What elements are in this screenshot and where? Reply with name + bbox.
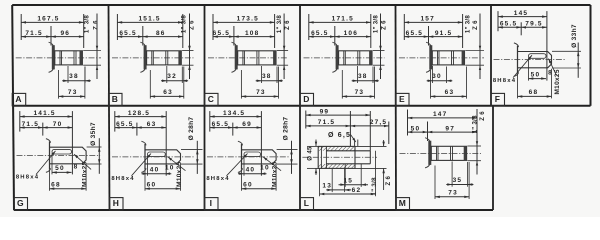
svg-text:M10x25: M10x25 bbox=[176, 161, 183, 186]
panel C shaft flange bbox=[235, 45, 238, 69]
svg-text:145: 145 bbox=[514, 10, 528, 17]
svg-text:63: 63 bbox=[445, 89, 455, 96]
label box C bbox=[205, 93, 219, 105]
panel L hub outer section bbox=[318, 146, 355, 168]
panel B shaft groove lines bbox=[151, 51, 153, 65]
panel L dim extension line left bbox=[305, 111, 307, 129]
panel B shaft body bbox=[147, 51, 182, 65]
svg-text:F: F bbox=[495, 94, 501, 104]
svg-text:35: 35 bbox=[453, 177, 463, 184]
svg-text:8H8x4: 8H8x4 bbox=[111, 176, 134, 182]
svg-text:65.5: 65.5 bbox=[119, 30, 136, 37]
svg-text:63: 63 bbox=[147, 121, 157, 128]
svg-text:91.5: 91.5 bbox=[435, 30, 452, 37]
panel L lube hole bbox=[354, 140, 356, 147]
panel L bore walls bbox=[326, 150, 370, 152]
svg-text:96: 96 bbox=[60, 30, 70, 37]
panel A dim extension line middle bbox=[50, 26, 52, 46]
panel A dimension 96 bbox=[51, 36, 84, 38]
label box B bbox=[109, 93, 123, 105]
svg-text:68: 68 bbox=[529, 89, 539, 96]
svg-text:63: 63 bbox=[163, 89, 173, 96]
panel G tapped hole leader bbox=[74, 154, 91, 169]
panel C shaft diameter dimension bbox=[277, 50, 288, 52]
panel H dimension 63 bbox=[137, 127, 166, 129]
panel L dimension 62 bbox=[319, 168, 321, 196]
svg-text:8H8x4: 8H8x4 bbox=[206, 176, 229, 182]
panel F dimension 68 bbox=[517, 74, 519, 99]
panel M dimension 50 bbox=[408, 131, 428, 133]
panel L dimension 15 bbox=[344, 164, 346, 187]
svg-text:128.5: 128.5 bbox=[128, 110, 150, 117]
svg-text:8H8x4: 8H8x4 bbox=[16, 175, 39, 181]
svg-text:I: I bbox=[210, 198, 214, 208]
svg-text:157: 157 bbox=[420, 16, 434, 23]
svg-text:40: 40 bbox=[150, 167, 160, 174]
label box A bbox=[12, 93, 26, 105]
panel M dim extension line left bbox=[407, 110, 409, 136]
svg-text:108: 108 bbox=[245, 30, 259, 37]
svg-text:1" 3/8: 1" 3/8 bbox=[181, 15, 188, 34]
svg-text:99: 99 bbox=[320, 108, 330, 115]
panel L dim extension line 99 end bbox=[369, 111, 371, 151]
panel F gearbox face bbox=[517, 46, 519, 74]
panel G dim extension line left bbox=[19, 111, 21, 132]
panel L hub diameter dimension 45 bbox=[307, 145, 318, 147]
panel D shaft end cap bbox=[369, 51, 372, 65]
border vertical C-D bbox=[299, 5, 301, 210]
svg-text:50: 50 bbox=[411, 125, 421, 132]
panel B dimension 86 bbox=[143, 36, 183, 38]
panel A dimension 38 bbox=[67, 66, 69, 83]
panel I dimension 134.5 bbox=[210, 116, 262, 118]
panel A shaft diameter dimension bbox=[83, 50, 101, 52]
svg-text:38: 38 bbox=[358, 73, 368, 80]
panel L sleeve end bbox=[369, 151, 371, 164]
panel F dim extension line middle bbox=[520, 22, 522, 35]
svg-text:1" 3/8: 1" 3/8 bbox=[371, 177, 378, 196]
border vertical left bbox=[12, 5, 14, 210]
svg-text:Ø 6,5: Ø 6,5 bbox=[328, 132, 351, 139]
label box M bbox=[396, 198, 410, 210]
panel I dimension 60 bbox=[241, 170, 243, 191]
panel L dimension 13 bbox=[331, 168, 333, 192]
panel A dim extension line left bbox=[20, 14, 22, 40]
svg-text:65.5: 65.5 bbox=[116, 121, 133, 128]
panel I gearbox face bbox=[241, 144, 243, 170]
svg-text:50: 50 bbox=[531, 71, 541, 78]
panel I dimension 69 bbox=[233, 127, 262, 129]
svg-text:60: 60 bbox=[243, 181, 253, 188]
panel F dim extension line right keyway end bbox=[546, 11, 548, 81]
panel D dim extension line middle bbox=[334, 26, 336, 46]
svg-text:171.5: 171.5 bbox=[332, 16, 354, 23]
svg-text:8: 8 bbox=[74, 163, 79, 170]
svg-text:71.5: 71.5 bbox=[25, 30, 42, 37]
panel L hub hatching bottom bbox=[318, 164, 355, 168]
panel G shaft body bbox=[50, 147, 87, 164]
panel B dimension 32 bbox=[166, 66, 168, 83]
panel D shaft diameter dimension bbox=[373, 50, 385, 52]
svg-text:Z 6: Z 6 bbox=[381, 20, 388, 30]
panel E shaft diameter dimension bbox=[465, 50, 484, 52]
svg-text:65.5: 65.5 bbox=[212, 121, 229, 128]
panel A shaft centerline bbox=[16, 57, 101, 59]
panel I dim extension line right keyway end bbox=[260, 111, 262, 176]
border vertical A-B bbox=[109, 5, 110, 210]
panel G keyway bbox=[52, 149, 72, 154]
panel C shaft centerline bbox=[208, 57, 288, 59]
svg-text:73: 73 bbox=[256, 89, 266, 96]
panel E dim extension line left bbox=[403, 14, 405, 40]
panel H shaft diameter dimension bbox=[181, 149, 203, 151]
panel D shaft groove lines bbox=[343, 51, 345, 65]
panel H gearbox face bbox=[144, 144, 146, 170]
panel F shaft centerline bbox=[494, 59, 566, 61]
panel D dim extension line right bbox=[370, 14, 372, 48]
panel D dimension 171.5 bbox=[309, 21, 371, 23]
panel H dim extension line left bbox=[114, 111, 116, 132]
svg-text:1" 3/8: 1" 3/8 bbox=[373, 15, 380, 34]
panel I dim extension line left bbox=[209, 111, 211, 132]
panel B shaft end cap bbox=[178, 51, 181, 65]
panel G shaft centerline bbox=[17, 155, 101, 157]
panel A shaft flange bbox=[52, 45, 55, 69]
panel M dim extension line middle bbox=[427, 122, 429, 142]
panel I tapped hole leader bbox=[263, 157, 281, 171]
panel E dim extension line middle bbox=[428, 26, 430, 46]
panel D dimension 38 bbox=[357, 66, 359, 83]
svg-text:C: C bbox=[208, 94, 215, 104]
panel A dimension 73 bbox=[58, 70, 60, 99]
svg-text:M: M bbox=[399, 198, 407, 208]
svg-text:Ø 35h7: Ø 35h7 bbox=[90, 122, 97, 146]
panel I shaft body bbox=[242, 150, 277, 164]
svg-text:147: 147 bbox=[433, 111, 447, 118]
panel H dim extension line right keyway end bbox=[165, 111, 167, 176]
svg-text:B: B bbox=[112, 94, 119, 104]
panel F key label leader bbox=[513, 55, 532, 77]
panel A shaft end cap bbox=[80, 51, 83, 65]
panel M dimension 73 bbox=[434, 166, 436, 200]
panel M shaft diameter dimension bbox=[467, 145, 481, 147]
svg-text:73: 73 bbox=[355, 89, 365, 96]
panel B dimension 65.5 bbox=[117, 36, 142, 38]
panel G dimension 50 bbox=[51, 153, 53, 174]
border vertical E-F bbox=[490, 5, 492, 106]
panel H shaft centerline bbox=[112, 156, 195, 158]
svg-text:62: 62 bbox=[352, 187, 362, 194]
svg-text:Z 6: Z 6 bbox=[479, 111, 486, 121]
svg-text:50: 50 bbox=[55, 165, 65, 172]
panel M shaft flange bbox=[428, 141, 431, 165]
svg-text:M10x25: M10x25 bbox=[271, 161, 278, 186]
panel D dimension 65.5 bbox=[309, 36, 335, 38]
panel E shaft flange bbox=[429, 45, 432, 69]
panel C dim extension line middle bbox=[233, 26, 235, 46]
svg-text:Ø 45: Ø 45 bbox=[307, 146, 314, 161]
panel H dimension 60 bbox=[144, 170, 146, 191]
panel C dim extension line right bbox=[274, 14, 276, 48]
panel G gearbox face bbox=[49, 141, 51, 169]
panel F dim extension line left bbox=[497, 11, 499, 31]
panel D dim extension line left bbox=[308, 14, 310, 40]
panel B shaft centerline bbox=[112, 57, 194, 59]
panel F dimension 65.5 bbox=[498, 26, 521, 28]
svg-text:E: E bbox=[399, 94, 406, 104]
svg-text:27,5: 27,5 bbox=[370, 119, 387, 126]
panel C dimension 108 bbox=[234, 36, 275, 38]
panel M dim extension line right bbox=[476, 110, 478, 144]
sheet outer border top bbox=[12, 4, 590, 6]
svg-text:106: 106 bbox=[344, 30, 358, 37]
panel D dimension 106 bbox=[335, 36, 371, 38]
panel A shaft body bbox=[55, 51, 83, 65]
svg-text:Z 6: Z 6 bbox=[93, 20, 100, 30]
row divider line bbox=[13, 105, 591, 107]
panel C shaft end cap bbox=[273, 51, 276, 65]
panel G dim extension line right keyway end bbox=[71, 111, 73, 174]
panel E dimension 65.5 bbox=[404, 36, 428, 38]
svg-text:30: 30 bbox=[432, 73, 442, 80]
panel F tapped hole leader bbox=[549, 59, 557, 76]
panel F shaft diameter dimension bbox=[552, 50, 581, 52]
svg-text:65.5: 65.5 bbox=[311, 30, 328, 37]
svg-text:G: G bbox=[17, 198, 25, 208]
panel C shaft body bbox=[238, 51, 276, 65]
panel B dimension 151.5 bbox=[117, 21, 182, 23]
panel D shaft body bbox=[339, 51, 372, 65]
panel F keyway bbox=[529, 54, 547, 59]
svg-text:Ø 28h7: Ø 28h7 bbox=[282, 117, 289, 141]
panel G dim extension line middle bbox=[42, 123, 44, 136]
panel F shaft body bbox=[518, 52, 552, 68]
svg-text:69: 69 bbox=[242, 121, 252, 128]
svg-text:167.5: 167.5 bbox=[37, 16, 59, 23]
panel E dimension 91.5 bbox=[429, 36, 463, 38]
svg-text:D: D bbox=[303, 94, 310, 104]
panel B dim extension line left bbox=[116, 14, 118, 40]
panel L dimension 27.5 bbox=[350, 125, 388, 127]
panel E shaft groove lines bbox=[437, 51, 439, 65]
panel L dim extension line 27.5 end bbox=[388, 122, 390, 145]
panel F dimension 50 bbox=[528, 58, 530, 81]
panel H dimension 128.5 bbox=[115, 116, 166, 118]
border vertical D-E bbox=[395, 5, 398, 210]
border vertical M right bbox=[492, 106, 494, 210]
svg-text:8H8x4: 8H8x4 bbox=[493, 78, 516, 84]
svg-text:65.5: 65.5 bbox=[406, 30, 423, 37]
panel M dimension 97 bbox=[428, 131, 478, 133]
panel M shaft centerline bbox=[400, 152, 482, 154]
panel I dimension 40 bbox=[243, 156, 245, 176]
panel D shaft centerline bbox=[304, 57, 385, 59]
panel C dimension 173.5 bbox=[213, 21, 275, 23]
panel B dim extension line middle bbox=[142, 26, 144, 46]
label box H bbox=[110, 198, 124, 210]
panel A dim extension line right bbox=[83, 14, 85, 48]
panel H key label leader bbox=[132, 154, 152, 176]
svg-text:1" 3/8: 1" 3/8 bbox=[83, 15, 90, 34]
svg-text:Ø 33h7: Ø 33h7 bbox=[571, 24, 578, 48]
svg-text:A: A bbox=[15, 94, 22, 104]
svg-text:79.5: 79.5 bbox=[525, 21, 542, 28]
panel F dimension 79.5 bbox=[521, 26, 547, 28]
panel G dimension 141.5 bbox=[20, 116, 73, 118]
border vertical F right bbox=[590, 5, 592, 106]
label box F bbox=[491, 93, 505, 105]
panel B shaft diameter dimension bbox=[182, 50, 193, 52]
svg-text:97: 97 bbox=[445, 125, 455, 132]
svg-text:L: L bbox=[304, 198, 310, 208]
panel B dimension 63 bbox=[149, 70, 151, 99]
panel G dimension 68 bbox=[49, 170, 51, 191]
panel G dimension 71.5 bbox=[20, 127, 43, 129]
svg-text:65.5: 65.5 bbox=[500, 21, 517, 28]
svg-text:40: 40 bbox=[246, 167, 256, 174]
panel L centerline bbox=[302, 156, 377, 158]
panel M dimension 147 bbox=[408, 117, 478, 119]
panel G key label leader bbox=[36, 151, 56, 175]
panel L hub hatching top bbox=[318, 146, 355, 150]
svg-text:M10x25: M10x25 bbox=[81, 161, 88, 186]
panel L seal recess bbox=[320, 146, 322, 168]
label box L bbox=[300, 198, 314, 210]
panel G dimension 70 bbox=[43, 127, 73, 129]
panel E shaft centerline bbox=[399, 57, 484, 59]
border vertical B-C bbox=[204, 5, 206, 210]
panel I shaft diameter dimension bbox=[277, 149, 298, 151]
svg-text:141.5: 141.5 bbox=[33, 110, 55, 117]
panel H shaft body bbox=[145, 150, 181, 164]
panel C dimension 65.5 bbox=[213, 36, 234, 38]
panel M shaft groove lines bbox=[436, 146, 438, 160]
panel M shaft end cap bbox=[464, 146, 467, 160]
panel C dim extension line left bbox=[212, 14, 214, 40]
sheet bottom border bbox=[14, 209, 493, 211]
panel I keyway bbox=[244, 152, 261, 157]
svg-text:Z 6: Z 6 bbox=[472, 20, 479, 30]
svg-text:13: 13 bbox=[322, 183, 332, 190]
panel C dimension 38 bbox=[261, 66, 263, 83]
svg-text:38: 38 bbox=[69, 73, 79, 80]
panel L hole leader bbox=[351, 135, 356, 143]
panel L dim extension line 71.5 end bbox=[349, 111, 351, 146]
panel E dim extension line right bbox=[462, 14, 464, 48]
panel M shaft body bbox=[431, 146, 466, 160]
label box G bbox=[14, 198, 28, 210]
panel E dimension 157 bbox=[404, 21, 462, 23]
panel A dimension 71.5 bbox=[21, 36, 51, 38]
label box D bbox=[300, 93, 314, 105]
svg-text:38: 38 bbox=[262, 73, 272, 80]
panel A shaft groove lines bbox=[59, 51, 61, 65]
panel E dimension 63 bbox=[430, 70, 432, 99]
svg-text:60: 60 bbox=[147, 181, 157, 188]
panel M dimension 35 bbox=[451, 162, 453, 187]
svg-text:1" 3/8: 1" 3/8 bbox=[276, 15, 283, 34]
svg-text:1" 3/8: 1" 3/8 bbox=[465, 15, 472, 34]
panel D shaft flange bbox=[336, 45, 339, 69]
svg-text:8: 8 bbox=[548, 70, 553, 77]
panel F dimension 145 bbox=[498, 16, 547, 18]
panel H dimension 40 bbox=[147, 156, 149, 176]
panel A dimension 167.5 bbox=[21, 21, 83, 23]
panel G shaft diameter dimension bbox=[87, 146, 102, 148]
panel C shaft groove lines bbox=[242, 51, 244, 65]
panel E shaft end cap bbox=[462, 51, 465, 65]
svg-text:10: 10 bbox=[260, 165, 270, 172]
svg-text:71.5: 71.5 bbox=[22, 121, 39, 128]
svg-text:151.5: 151.5 bbox=[138, 16, 160, 23]
panel H tapped hole leader bbox=[168, 157, 186, 171]
panel H keyway bbox=[148, 152, 166, 157]
panel I dimension 65.5 bbox=[210, 127, 233, 129]
panel I shaft centerline bbox=[207, 156, 290, 158]
svg-text:71.5: 71.5 bbox=[318, 119, 335, 126]
panel B dim extension line right bbox=[182, 14, 184, 48]
panel I key label leader bbox=[227, 154, 248, 176]
svg-text:68: 68 bbox=[51, 181, 61, 188]
svg-text:86: 86 bbox=[156, 30, 166, 37]
svg-text:32: 32 bbox=[167, 73, 177, 80]
panel H dimension 65.5 bbox=[115, 127, 137, 129]
panel D dimension 73 bbox=[341, 70, 343, 99]
label box I bbox=[205, 198, 219, 210]
panel B shaft flange bbox=[144, 45, 147, 69]
svg-text:H: H bbox=[113, 198, 120, 208]
svg-text:134.5: 134.5 bbox=[223, 110, 245, 117]
svg-text:73: 73 bbox=[68, 89, 78, 96]
svg-text:10: 10 bbox=[165, 165, 175, 172]
panel L spline bore diameter dimension bbox=[356, 145, 387, 147]
svg-text:Ø 28h7: Ø 28h7 bbox=[188, 117, 195, 141]
panel L dimension 71.5 bbox=[306, 125, 351, 127]
panel E shaft body bbox=[432, 51, 464, 65]
svg-text:Z 6: Z 6 bbox=[385, 175, 392, 185]
panel H dim extension line middle bbox=[136, 123, 138, 136]
svg-text:65.5: 65.5 bbox=[213, 30, 230, 37]
panel E dimension 30 bbox=[432, 66, 434, 83]
panel I dim extension line middle bbox=[232, 123, 234, 136]
svg-text:70: 70 bbox=[53, 121, 63, 128]
label box E bbox=[396, 93, 410, 105]
panel L dimension 99 bbox=[306, 114, 371, 116]
panel C dimension 73 bbox=[240, 70, 242, 99]
svg-text:173.5: 173.5 bbox=[237, 16, 259, 23]
svg-text:Z 6: Z 6 bbox=[284, 20, 291, 30]
svg-text:73: 73 bbox=[448, 189, 458, 196]
